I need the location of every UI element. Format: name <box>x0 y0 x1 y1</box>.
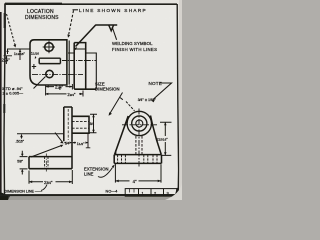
boss front view rectangle <box>72 116 89 133</box>
pedestal left foot edge <box>115 150 117 154</box>
boss centerlines <box>122 124 157 126</box>
leader from EXTENSION LINE <box>98 168 113 178</box>
drill note leader <box>34 77 46 89</box>
leader dashed from LOCATION DIMENSIONS <box>7 14 16 45</box>
text LOCATION DIMENSIONS <box>25 9 59 21</box>
column hidden centerline <box>67 109 69 140</box>
border ink blob left <box>4 13 6 28</box>
right slant web edge <box>151 116 162 155</box>
leader bent from SIZE DIMENSION <box>110 93 123 114</box>
boss hidden hole lines <box>72 122 89 129</box>
dimension row 2 3/4 <box>45 91 83 97</box>
base height dimension 5/8 <box>20 151 28 175</box>
scan noise <box>0 0 182 200</box>
dimension 3/4 under column <box>61 142 75 144</box>
dimension 1 1/2 under boss <box>75 134 91 148</box>
leader from note to boss dashed <box>126 102 135 111</box>
slot centerline dashed to right <box>62 60 96 62</box>
arrow 5/16 <box>20 134 23 139</box>
leader dash before text <box>73 9 79 11</box>
slot <box>39 58 60 63</box>
base hidden holes right group <box>144 155 157 164</box>
border frame <box>0 4 179 196</box>
bottom hole <box>46 70 53 77</box>
bottom-right corner light wedge <box>165 183 182 200</box>
dimension row 2 1/4 below top view <box>46 84 73 96</box>
weld bead line in column <box>74 48 86 50</box>
left location dimension 2 1/4 <box>4 56 13 64</box>
bottom dimension 2 3/4 <box>29 170 72 184</box>
text WELDING SYMBOL <box>112 41 157 52</box>
top hole <box>45 43 54 52</box>
scan bottom-left corner blob <box>0 192 10 200</box>
leader B long from lower-left <box>31 146 62 158</box>
bore hidden lines in pedestal <box>136 136 142 154</box>
dimension line 4 <box>115 180 161 182</box>
hidden hole in base front view <box>45 157 48 169</box>
bore hole circle <box>136 120 143 127</box>
leader dashed to plate corner <box>69 11 74 35</box>
upright column front view <box>64 107 72 141</box>
leader to WELDING SYMBOL text <box>112 27 116 40</box>
scale numbers <box>142 191 170 196</box>
weld reference line <box>96 24 117 26</box>
boss outer circle <box>127 111 151 135</box>
tick before note <box>120 98 123 100</box>
flange strip top view <box>86 53 96 89</box>
scan left black edge <box>0 12 2 200</box>
edge shading right <box>179 0 182 200</box>
leader 7-shape from NOTE <box>153 83 172 100</box>
small down arrow under text <box>35 56 37 59</box>
drill note text <box>2 87 23 95</box>
base hidden holes left group <box>118 155 126 163</box>
column+flange bottom edge <box>74 88 96 90</box>
extension line right for dim 4 <box>160 164 162 182</box>
weld leader arrow to joint <box>76 25 97 47</box>
base plate front view <box>29 141 72 168</box>
small center cross <box>32 64 36 69</box>
left slant web edge <box>115 116 129 154</box>
paper background <box>0 0 182 200</box>
upright plate section (column) top view <box>74 43 86 89</box>
hook leader <box>41 185 47 191</box>
plate right edge double line <box>68 41 70 85</box>
extension line left for dim 4 <box>114 164 116 183</box>
below border strip <box>8 197 173 201</box>
boss chamfer circle <box>132 116 147 131</box>
base side view <box>114 155 161 164</box>
right height dimension 2 15/16 <box>160 122 172 155</box>
extension line 5/16 left <box>17 133 64 135</box>
vertical dimension 3/4 (boss height) <box>89 114 98 133</box>
leader A to dims <box>55 133 63 143</box>
top hole centerlines <box>43 41 55 54</box>
base plate outline top view <box>30 40 67 85</box>
left location dimension 1 13/16 <box>7 49 30 60</box>
bottom hole centerline horizontal <box>32 73 83 75</box>
weld fillet symbol <box>109 25 114 31</box>
step edge segment <box>68 52 74 54</box>
scale bar table <box>125 189 177 197</box>
